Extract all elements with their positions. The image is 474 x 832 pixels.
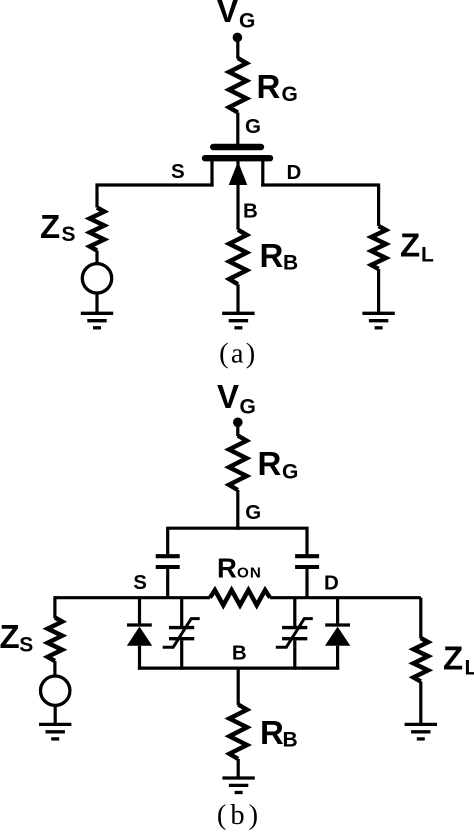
resistor ZS (b) [48,618,63,662]
svg-text:S: S [62,223,76,246]
ground left (a) [81,313,113,328]
resistor RG (a) [229,58,247,113]
node VG (a) [233,33,243,43]
ground middle (b) [222,778,254,793]
svg-text:(a): (a) [219,339,257,370]
transistor M1 (a) [205,147,270,187]
label VG (a) [217,0,256,33]
svg-text:D: D [324,572,339,595]
resistor ZL (a) [371,226,386,269]
svg-text:S: S [133,571,147,594]
svg-text:G: G [245,115,261,138]
wire ZS to source VS (b) [53,661,56,676]
wire body to RB (a) [236,161,239,230]
wire VS to ground (b) [54,705,57,724]
svg-text:G: G [239,10,255,33]
wire rail to ZL (b) [419,598,422,639]
resistor ZL (b) [414,638,429,682]
label ZL (b) [443,640,474,680]
wire VG to RG (a) [236,37,239,58]
resistor RB (b) [229,705,247,760]
wire RG to gate (a) [236,113,239,147]
capacitor CGS (b) [156,556,180,567]
svg-text:Z: Z [40,208,60,245]
svg-text:G: G [282,461,298,484]
label RB (a) [260,237,299,275]
label VG (b) [217,378,256,419]
label RG (a) [257,68,298,106]
ground left (b) [39,724,71,739]
body rail B (b) [138,666,339,669]
wire ZL to ground (a) [377,269,380,313]
svg-text:B: B [283,252,298,275]
svg-text:R: R [217,552,237,583]
svg-text:ON: ON [237,564,262,581]
label ZL (a) [400,227,434,267]
ground right (a) [362,313,394,328]
svg-text:(b): (b) [217,800,262,831]
wire ZL to ground (b) [419,682,422,725]
wire source to ZS (a) [97,185,214,208]
svg-text:L: L [465,657,474,680]
wire B rail to RB (b) [237,668,240,705]
resistor ZS (a) [90,208,105,251]
svg-text:S: S [171,160,185,183]
ground right (b) [405,724,437,739]
svg-text:G: G [245,501,261,524]
wire RG to gate rail (b) [236,490,239,530]
svg-text:L: L [421,244,434,267]
wire rail to ZS (b) [55,598,57,618]
wire VS to ground (a) [95,293,98,313]
node VG (b) [233,418,243,428]
source VS (b) [41,676,70,705]
svg-text:D: D [287,161,302,184]
varactor CSB (b) [163,598,200,670]
wire RB to ground (b) [237,759,240,778]
label RG (b) [258,445,299,484]
diode DDB (b) [325,598,350,670]
svg-text:G: G [282,83,298,106]
wire RB to ground (a) [236,284,239,313]
resistor RON (b) [210,590,270,605]
capacitor CGD (b) [295,556,319,567]
resistor RB (a) [229,230,247,284]
svg-text:Z: Z [400,227,420,264]
svg-text:G: G [240,396,256,419]
svg-text:Z: Z [443,640,463,677]
svg-text:B: B [232,642,247,665]
svg-text:R: R [260,237,284,274]
wire VG to RG (b) [236,422,239,436]
svg-text:B: B [283,729,298,752]
wire CGD to D (b) [305,569,308,599]
ground middle (a) [222,313,254,328]
wire CGS to S (b) [166,569,169,599]
svg-text:Z: Z [0,618,20,655]
wire drain to ZL (a) [261,185,378,226]
svg-text:S: S [19,633,33,656]
label RON (b) [217,552,262,583]
svg-text:V: V [217,378,239,415]
wire S rail (b) [55,596,210,599]
diode DSB (b) [127,598,152,670]
label ZS (a) [40,208,76,246]
svg-text:R: R [260,714,284,751]
label ZS (b) [0,618,33,656]
label RB (b) [260,714,298,752]
wire ZS to source VS (a) [95,251,98,264]
gate rail wire (b) [168,528,307,555]
resistor RG (b) [229,436,247,491]
svg-text:R: R [258,445,282,482]
source VS (a) [82,264,111,293]
wire D rail (b) [270,596,421,599]
svg-text:V: V [217,0,239,29]
svg-text:B: B [243,200,258,223]
varactor CDB (b) [276,598,313,670]
svg-text:R: R [257,68,281,105]
